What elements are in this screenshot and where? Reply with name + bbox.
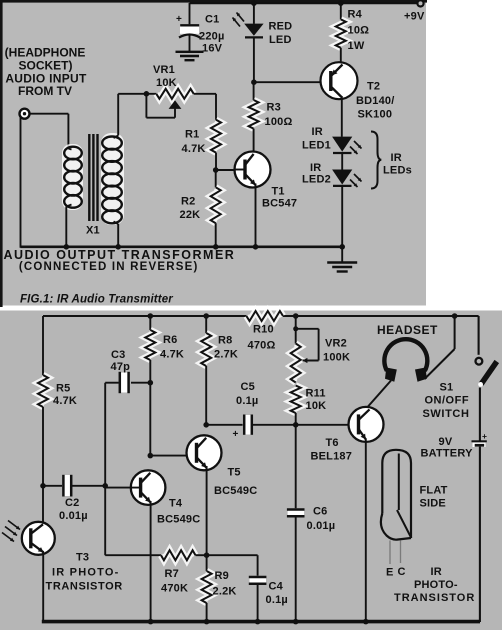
svg-text:+9V: +9V [404,11,425,23]
transistor T3 (IR phototransistor) [42,486,44,527]
svg-text:C5: C5 [241,381,255,393]
transformer X1 core [88,134,90,221]
phototransistor package drawing [382,450,411,538]
svg-text:10K: 10K [156,77,177,89]
resistor R7 [104,486,106,555]
svg-text:R9: R9 [215,570,229,582]
node T6 base junction [293,422,299,428]
svg-text:X1: X1 [86,225,100,237]
switch S1 [478,316,480,355]
diode RED LED [251,0,257,6]
svg-text:R8: R8 [218,335,232,347]
svg-text:C: C [398,566,406,578]
diode IR LED1 [332,137,352,152]
capacitor C3 [148,380,154,386]
svg-text:TRANSISTOR: TRANSISTOR [46,581,123,593]
svg-text:16V: 16V [202,43,223,55]
svg-text:S1: S1 [440,382,454,394]
svg-text:TRANSISTOR: TRANSISTOR [394,592,475,604]
resistor R6 [148,313,154,319]
svg-text:C4: C4 [269,581,284,593]
resistor R3 [253,82,255,100]
diode IR LED2 [332,170,352,185]
svg-text:10K: 10K [306,400,327,412]
svg-text:0.1µ: 0.1µ [236,395,258,407]
svg-text:IR PHOTO-: IR PHOTO- [52,567,119,579]
svg-text:LED1: LED1 [302,140,331,152]
svg-text:HEADSET: HEADSET [377,323,438,337]
svg-text:T5: T5 [228,467,241,479]
capacitor C6 [295,425,297,508]
svg-text:IR: IR [391,152,402,164]
svg-text:R10: R10 [253,324,274,336]
transistor T6 [349,407,384,442]
svg-text:220µ: 220µ [199,31,225,43]
svg-text:VR1: VR1 [153,64,175,76]
wire to T2 base [254,81,332,83]
svg-text:(HEADPHONE: (HEADPHONE [5,45,86,59]
svg-text:FROM TV: FROM TV [18,84,72,98]
svg-text:9V: 9V [439,436,453,448]
wire ground rail (top circuit) [21,246,343,249]
transistor T4 [149,383,151,456]
svg-text:+: + [176,14,182,25]
svg-text:100K: 100K [323,352,350,364]
headset [384,339,427,371]
svg-text:T1: T1 [272,186,285,198]
wire +9V top rail [190,2,418,4]
svg-text:47p: 47p [111,361,131,373]
resistor R2 [215,170,217,187]
potentiometer VR1 [118,93,156,95]
svg-text:0.01µ: 0.01µ [59,510,88,522]
svg-text:2.7K: 2.7K [214,349,238,361]
svg-text:BC549C: BC549C [157,514,200,526]
battery 9V [472,440,487,442]
svg-text:2.2K: 2.2K [213,586,237,598]
ground (under C1) [176,51,204,53]
svg-text:(CONNECTED IN REVERSE): (CONNECTED IN REVERSE) [19,261,199,273]
svg-text:R6: R6 [163,334,177,346]
svg-text:BC549C: BC549C [214,485,257,497]
svg-text:C3: C3 [111,349,125,361]
svg-text:4.7K: 4.7K [53,395,77,407]
node +9V terminal [417,0,423,6]
svg-text:LED: LED [269,34,292,46]
svg-text:BATTERY: BATTERY [421,448,474,460]
svg-text:IR: IR [431,566,442,578]
wire headset right to rail [425,349,455,379]
resistor R1 [215,94,217,120]
svg-text:10Ω: 10Ω [348,25,370,37]
resistor R8 [203,313,209,319]
brace IR LEDs [371,132,381,189]
transformer X1 secondary winding [101,133,124,225]
svg-text:PHOTO-: PHOTO- [414,579,458,591]
wire supply rail (receiver) [43,315,246,317]
wire T2 collector to IR LEDs [341,96,343,137]
svg-text:ON/OFF: ON/OFF [425,395,470,407]
svg-text:R11: R11 [306,388,326,400]
svg-text:T3: T3 [76,552,89,564]
svg-text:R1: R1 [185,129,199,141]
svg-text:E: E [386,567,394,579]
node T1 base junction [213,167,219,173]
svg-text:SIDE: SIDE [420,498,446,510]
svg-text:+: + [233,429,239,440]
svg-text:4.7K: 4.7K [160,349,184,361]
svg-text:BEL187: BEL187 [311,451,353,463]
light arrows into T3 [8,521,20,530]
ground (under IR LEDs) [339,244,345,250]
svg-text:100Ω: 100Ω [265,116,293,128]
svg-text:T2: T2 [367,81,380,93]
svg-text:22K: 22K [180,209,201,221]
transistor T1 [235,152,271,188]
wire socket to transformer primary [30,113,69,115]
svg-text:T4: T4 [169,498,183,510]
resistor R10 [246,311,283,321]
capacitor C1 [189,3,191,24]
resistor R5 [42,316,44,375]
svg-text:IR: IR [312,126,323,138]
potentiometer VR2 [293,313,299,319]
transistor T5 [150,455,197,457]
svg-text:1W: 1W [348,40,365,52]
capacitor C4 [207,554,258,556]
svg-text:SOCKET): SOCKET) [19,59,73,73]
svg-text:R5: R5 [56,383,70,395]
resistor R4 [338,0,344,6]
node input socket [20,109,30,119]
svg-text:FLAT: FLAT [420,485,448,497]
svg-text:470K: 470K [161,583,188,595]
node LED/R3/T2-base junction [251,79,257,85]
svg-text:VR2: VR2 [325,338,347,350]
transformer X1 primary winding [62,144,83,210]
svg-text:+: + [482,431,487,441]
capacitor C5 [206,424,242,426]
svg-text:FIG.1: IR Audio Transmitter: FIG.1: IR Audio Transmitter [20,294,173,306]
svg-text:IR: IR [310,162,321,174]
svg-text:C6: C6 [313,506,327,518]
svg-text:BC547: BC547 [262,198,297,210]
svg-text:BD140/: BD140/ [356,95,395,107]
svg-text:LED2: LED2 [302,174,331,186]
wire socket down to ground rail [20,118,22,248]
svg-text:SK100: SK100 [358,109,393,121]
svg-text:R7: R7 [165,568,179,580]
svg-text:470Ω: 470Ω [248,340,276,352]
svg-text:R4: R4 [348,9,363,21]
wire ground rail (receiver) [42,620,480,624]
svg-text:0.01µ: 0.01µ [307,520,336,532]
svg-text:SWITCH: SWITCH [423,408,470,420]
svg-text:T6: T6 [326,437,339,449]
transistor T2 (PNP) [321,62,358,99]
resistor R11 [291,386,301,414]
svg-text:RED: RED [269,21,293,33]
svg-text:R2: R2 [181,196,195,208]
capacitor C2 [40,483,46,489]
svg-text:R3: R3 [267,102,281,114]
wire headset left to T6 collector [368,381,391,407]
svg-text:0.1µ: 0.1µ [266,594,288,606]
svg-text:C2: C2 [65,497,79,509]
wire T1 emitter to rail [255,184,257,248]
svg-text:C1: C1 [205,14,219,26]
svg-text:LEDs: LEDs [383,165,412,177]
svg-text:4.7K: 4.7K [182,143,206,155]
resistor R9 [204,552,210,558]
